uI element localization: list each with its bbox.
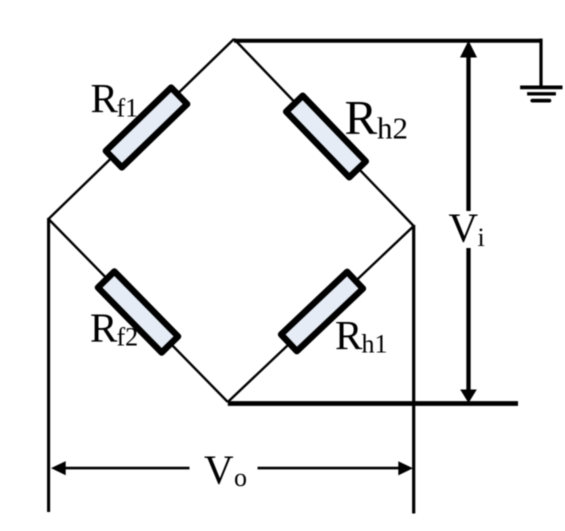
svg-text:V: V	[204, 446, 234, 492]
svg-text:h2: h2	[377, 111, 408, 146]
Vi shaft upper segment	[466, 56, 470, 211]
wire ground drop (vertical)	[539, 39, 542, 88]
wire left node down (left vertical)	[47, 218, 50, 512]
svg-text:V: V	[449, 204, 479, 250]
Vi dimension arrow down	[460, 390, 477, 404]
Vo dimension arrow left	[51, 461, 66, 475]
Vo line right segment	[258, 467, 400, 470]
wire top node to right node	[234, 39, 414, 226]
wire bottom node to right (thick bottom rail)	[228, 401, 518, 406]
svg-text:o: o	[234, 463, 247, 492]
Vo line left segment	[64, 467, 190, 470]
wire bottom node to right node	[228, 226, 414, 402]
wire right node down (right vertical)	[412, 225, 415, 514]
Vo dimension arrow right	[398, 461, 413, 475]
Vi shaft lower segment	[466, 248, 470, 391]
Vi dimension arrow up	[460, 41, 477, 58]
wire top node to ground (horizontal)	[234, 39, 543, 43]
resistor Rf2	[98, 271, 178, 352]
resistor Rh2	[286, 96, 366, 178]
ground	[520, 87, 562, 100]
resistor Rh1	[281, 272, 363, 351]
svg-text:f1: f1	[117, 94, 139, 123]
resistor Rf1	[106, 88, 187, 168]
wire left node to bottom node	[49, 219, 228, 402]
svg-text:i: i	[478, 223, 485, 252]
svg-text:f2: f2	[117, 323, 139, 352]
svg-text:R: R	[91, 75, 119, 121]
svg-text:R: R	[345, 90, 378, 145]
wire top node to left node	[49, 39, 235, 219]
svg-text:h1: h1	[362, 330, 388, 359]
svg-text:R: R	[90, 304, 118, 350]
svg-text:R: R	[335, 312, 363, 358]
